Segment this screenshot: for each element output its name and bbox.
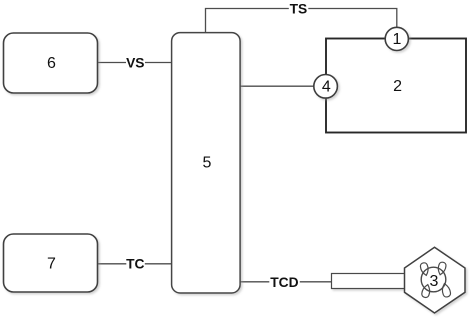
- wire TCD (box5 to rectangle): [240, 281, 331, 283]
- block 7: [4, 234, 98, 292]
- block 5: [172, 33, 241, 293]
- circle node 1: [385, 27, 408, 50]
- circle node 4: [314, 75, 338, 99]
- block 2: [326, 39, 466, 133]
- wire VS (box6 to box5): [98, 62, 172, 64]
- fan blade lower-left: [421, 284, 431, 299]
- svg-text:4: 4: [322, 79, 331, 96]
- wire TC (box7 to box5): [98, 263, 172, 265]
- fan blade lower-right: [441, 283, 452, 298]
- svg-text:6: 6: [47, 55, 56, 72]
- hexagon 3 (fan unit): [405, 247, 466, 313]
- svg-text:TC: TC: [126, 257, 144, 272]
- svg-text:1: 1: [393, 31, 402, 48]
- label TCD: [269, 274, 300, 290]
- block 6: [4, 33, 98, 93]
- fan blade upper-right: [437, 261, 447, 275]
- svg-text:5: 5: [203, 154, 212, 171]
- wire TS (box5 top to circle1): [206, 9, 397, 33]
- label TC: [126, 257, 145, 272]
- fan blade upper-left: [420, 262, 430, 276]
- svg-text:7: 7: [47, 255, 56, 272]
- svg-text:3: 3: [430, 273, 439, 290]
- svg-text:TS: TS: [290, 1, 308, 16]
- label TS: [289, 1, 309, 16]
- svg-text:TCD: TCD: [270, 275, 298, 290]
- svg-text:VS: VS: [126, 55, 144, 70]
- wire 5 to circle 4: [240, 85, 314, 87]
- fan hub circle 3: [421, 267, 446, 292]
- svg-text:2: 2: [393, 78, 402, 95]
- label VS: [126, 55, 145, 70]
- TCD sensor rectangle: [332, 274, 406, 289]
